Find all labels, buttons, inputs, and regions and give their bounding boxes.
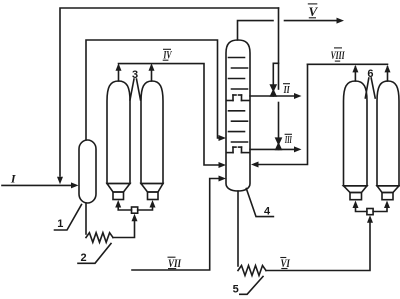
svg-text:I: I	[10, 171, 17, 185]
svg-text:3: 3	[132, 69, 138, 81]
svg-text:4: 4	[264, 206, 271, 218]
svg-text:V: V	[308, 4, 318, 19]
svg-text:1: 1	[57, 218, 63, 230]
svg-text:II: II	[283, 84, 290, 96]
svg-text:III: III	[284, 134, 292, 146]
svg-text:5: 5	[233, 284, 239, 296]
svg-text:2: 2	[80, 252, 86, 264]
svg-text:VIII: VIII	[331, 50, 345, 62]
svg-text:6: 6	[367, 68, 373, 80]
